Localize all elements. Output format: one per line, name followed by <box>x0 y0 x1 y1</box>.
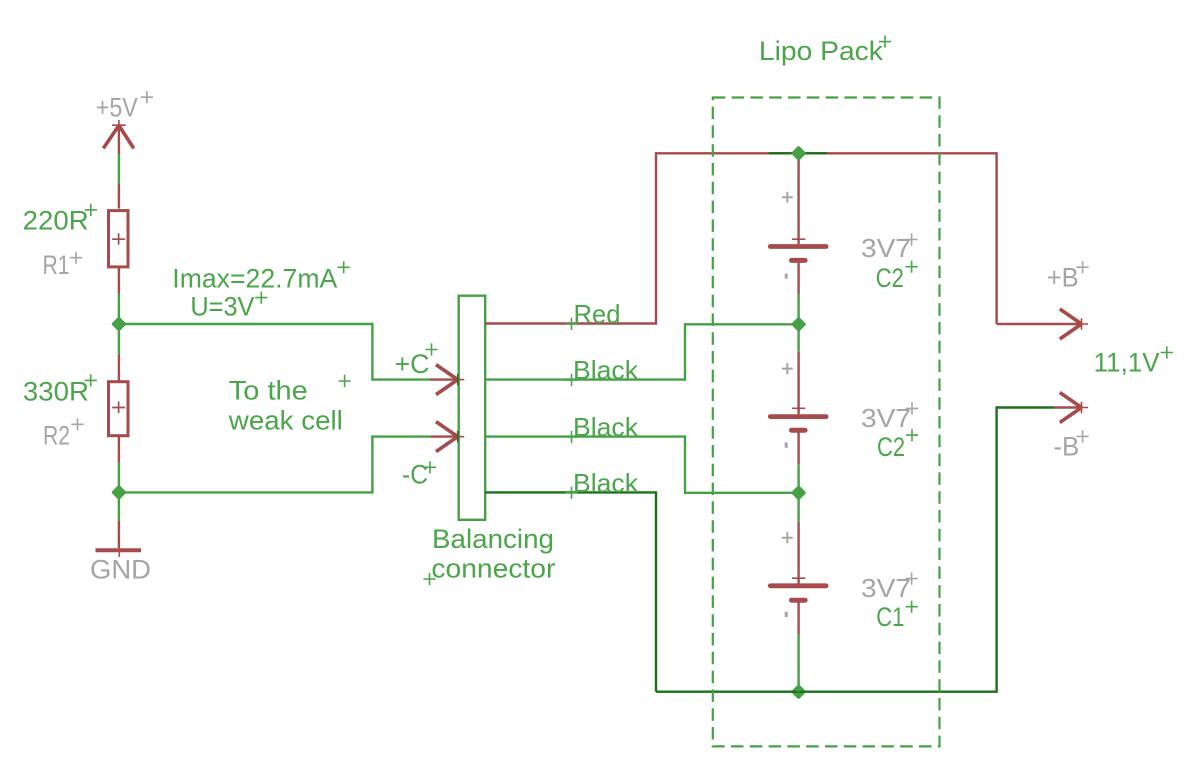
text origin cross for R2 <box>71 418 83 430</box>
text origin cross for C2 C2a <box>906 261 918 273</box>
pin C2b top (red) <box>797 352 799 415</box>
wire net BLACK1 battery segment (green) <box>797 295 799 352</box>
power symbol +5V P1 <box>103 120 133 154</box>
svg-text:11,1V: 11,1V <box>1094 348 1160 378</box>
text origin cross for 330R <box>85 374 97 386</box>
svg-text:connector: connector <box>431 554 555 584</box>
battery C2a pin cross <box>792 238 805 240</box>
resistor R2 body <box>109 382 129 436</box>
node B junction <box>111 485 127 501</box>
wire net BLACK2 battery segment (green) <box>797 464 799 522</box>
svg-text:R1: R1 <box>43 250 70 280</box>
pin C1 top (red) <box>797 522 799 584</box>
wire net RED vertical riser <box>655 152 657 325</box>
battery C1 pin cross <box>792 577 805 579</box>
text origin cross for Balancing connector <box>423 573 435 585</box>
text origin cross for Black 2 <box>565 431 577 443</box>
svg-text:-B: -B <box>1053 432 1079 462</box>
wire N$2 to +C arrow <box>371 378 429 380</box>
R1 origin cross <box>112 233 125 245</box>
text origin cross for +C <box>425 343 437 355</box>
text origin cross for 3V7 C2b <box>906 402 918 414</box>
wire GND-net to -C arrow <box>371 435 430 437</box>
pin R1.2 <box>118 268 120 293</box>
wire net BLACK2 (connector to bend) <box>485 435 685 437</box>
svg-text:To the: To the <box>229 376 308 406</box>
svg-text:220R: 220R <box>23 205 89 235</box>
text origin cross for Lipo Pack <box>879 36 891 48</box>
battery C2b pin cross <box>792 407 805 409</box>
svg-text:330R: 330R <box>23 376 89 406</box>
dashed box Lipo Pack <box>713 98 940 747</box>
svg-text:3V7: 3V7 <box>861 403 911 433</box>
svg-text:+5V: +5V <box>96 92 138 122</box>
wire net BLACK2 to node3 <box>685 492 799 494</box>
wire net BLACK3 bottom run <box>656 691 997 693</box>
pin C1 bottom (red) <box>797 602 799 634</box>
wire net BLACK3 vertical drop <box>655 491 657 692</box>
pin arrow -C <box>430 422 464 452</box>
battery C2b plus polarity mark <box>782 363 793 374</box>
battery C2a plus polarity mark <box>782 192 793 203</box>
pin arrow +C <box>429 365 464 395</box>
text origin cross for R1 <box>70 252 82 264</box>
wire GND-net horizontal (node B to bend) <box>118 491 373 493</box>
wire GND-net segment (R2 to node B) <box>118 462 120 492</box>
text origin cross for 3V7 C1 <box>906 573 918 585</box>
pin R2.2 <box>118 437 120 462</box>
wire net BLACK3 battery segment (green) <box>797 635 799 692</box>
text origin cross for -C <box>424 461 436 473</box>
pin GND <box>118 521 120 548</box>
text origin cross for Imax label <box>338 261 350 273</box>
pin arrow -B <box>1054 393 1088 423</box>
battery C2a minus polarity mark <box>785 274 788 279</box>
text origin cross for 3V7 C2a <box>906 233 918 245</box>
svg-text:R2: R2 <box>43 421 70 451</box>
text origin cross for 220R <box>85 204 97 216</box>
battery C2b minus polarity mark <box>785 443 788 448</box>
wire stub dark green at battery top node <box>769 152 828 154</box>
svg-text:3V7: 3V7 <box>861 573 911 603</box>
text origin cross for Black 3 <box>565 487 577 499</box>
svg-text:C2: C2 <box>877 432 905 462</box>
text origin cross for C1 <box>906 601 918 613</box>
node 3 junction <box>791 485 807 501</box>
wire net RED (connector to bend) <box>485 322 656 324</box>
wire net BLACK1 to node2 <box>685 323 799 325</box>
pin C2b bottom (red) <box>797 432 799 464</box>
battery cell C1 symbol <box>770 586 826 600</box>
svg-text:Lipo Pack: Lipo Pack <box>759 36 884 66</box>
wire N$2 horizontal (node A to bend) <box>118 323 373 325</box>
svg-text:-C: -C <box>402 460 428 490</box>
text origin cross for +B <box>1077 261 1089 273</box>
svg-text:Black: Black <box>573 412 639 442</box>
svg-text:Black: Black <box>573 468 639 498</box>
connector SV1 body (balancing connector) <box>459 296 486 520</box>
text origin cross for Red <box>565 318 577 330</box>
wire net BLACK3 right riser (dark green) <box>995 406 997 693</box>
svg-text:Black: Black <box>573 355 639 385</box>
pin R1.1 <box>118 184 120 209</box>
text origin cross for U=3V <box>255 292 267 304</box>
battery cell C2a symbol <box>770 247 826 261</box>
battery chain vertical: node1 to cell C2a (red net) <box>797 153 799 244</box>
wire net RED right riser <box>995 152 997 324</box>
ground symbol GND <box>96 545 142 557</box>
battery C1 plus polarity mark <box>782 532 793 543</box>
node 4 junction (battery bottom) <box>791 684 807 700</box>
svg-text:C2: C2 <box>876 263 904 293</box>
svg-text:Red: Red <box>574 299 621 329</box>
svg-text:Balancing: Balancing <box>432 524 554 554</box>
wire N$2 vertical bend <box>371 323 373 380</box>
pin arrow +B <box>1060 309 1088 339</box>
node A junction <box>111 316 127 332</box>
wire net BLACK3 (connector to bend, dark green) <box>485 491 656 493</box>
wire net RED top run <box>656 152 997 154</box>
svg-text:+B: +B <box>1047 263 1079 293</box>
svg-text:C1: C1 <box>876 602 904 632</box>
wire net RED to +B arrow <box>997 323 1082 325</box>
wire net BLACK2 vertical <box>684 435 686 494</box>
svg-text:weak cell: weak cell <box>228 406 343 436</box>
svg-text:+C: +C <box>395 349 430 379</box>
battery cell C2b symbol <box>770 417 826 431</box>
text origin cross for C2 C2b <box>906 429 918 441</box>
text origin cross for +5V <box>141 91 153 103</box>
wire N$2 segment (node A to R2) <box>118 324 120 355</box>
node 1 junction (battery top) <box>791 146 807 162</box>
resistor R1 body <box>109 211 129 267</box>
wire GND-net vertical bend <box>371 437 373 494</box>
svg-text:3V7: 3V7 <box>861 233 911 263</box>
node 2 junction <box>791 317 807 333</box>
wire net BLACK1 vertical <box>684 323 686 381</box>
wire GND-net segment (node B to GND symbol) <box>118 492 120 521</box>
text origin cross for To the weak cell <box>339 375 351 387</box>
text origin cross for -B <box>1077 430 1089 442</box>
svg-text:U=3V: U=3V <box>190 292 254 322</box>
wire net BLACK3 to -B arrow (dark green) <box>997 406 1054 408</box>
battery C1 minus polarity mark <box>785 612 788 617</box>
wire N$1 segment (arrow to R1) <box>118 154 120 184</box>
text origin cross for Black 1 <box>565 374 577 386</box>
svg-text:GND: GND <box>90 555 151 585</box>
pin R2.1 <box>118 355 120 381</box>
R2 origin cross <box>112 402 125 414</box>
wire net BLACK1 (connector to bend) <box>485 378 685 380</box>
svg-text:Imax=22.7mA: Imax=22.7mA <box>172 263 337 293</box>
wire N$2 segment (R1 to node A) <box>118 293 120 324</box>
text origin cross for 11,1V <box>1161 346 1173 358</box>
pin C2a bottom (red) <box>797 263 799 295</box>
